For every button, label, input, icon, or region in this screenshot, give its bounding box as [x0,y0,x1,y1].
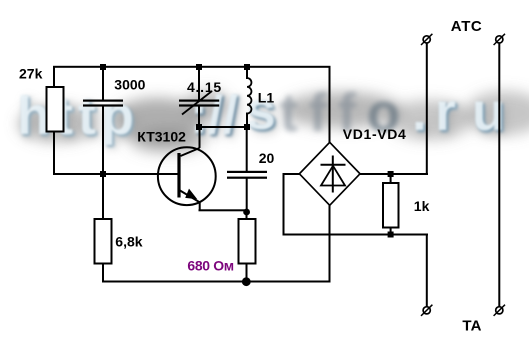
svg-text:20: 20 [259,150,275,166]
svg-text:27k: 27k [19,66,43,82]
svg-text:ТА: ТА [462,317,481,334]
svg-text:1k: 1k [414,198,430,214]
svg-text:L1: L1 [258,90,275,106]
svg-text:VD1-VD4: VD1-VD4 [343,126,407,142]
svg-text:6,8k: 6,8k [115,234,142,250]
svg-text:http: http [17,86,139,146]
svg-text:r: r [435,82,456,142]
svg-text:4..15: 4..15 [187,79,222,95]
svg-text:.: . [412,82,427,142]
svg-text:КТ3102: КТ3102 [137,129,186,145]
svg-text:3000: 3000 [114,77,145,93]
svg-text:680 Ом: 680 Ом [187,258,233,274]
svg-text:АТС: АТС [451,18,483,35]
